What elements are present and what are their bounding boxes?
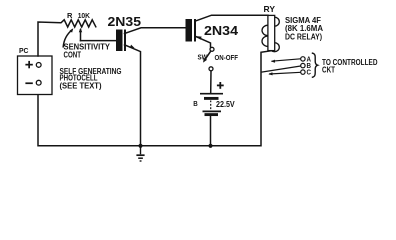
svg-text:2N34: 2N34	[204, 24, 238, 38]
svg-text:B: B	[193, 99, 198, 108]
svg-text:ON-OFF: ON-OFF	[215, 55, 239, 62]
svg-text:C: C	[307, 68, 312, 77]
svg-text:22.5V: 22.5V	[216, 100, 235, 109]
svg-text:PC: PC	[19, 46, 29, 55]
svg-text:CONT: CONT	[64, 51, 82, 60]
svg-text:CKT: CKT	[322, 65, 335, 74]
svg-text:DC RELAY): DC RELAY)	[285, 33, 322, 42]
svg-text:SW: SW	[198, 52, 209, 61]
svg-text:RY: RY	[264, 4, 276, 14]
svg-text:R: R	[67, 11, 73, 20]
svg-text:2N35: 2N35	[108, 15, 142, 29]
svg-text:(SEE TEXT): (SEE TEXT)	[60, 82, 102, 91]
svg-text:10K: 10K	[78, 11, 91, 20]
